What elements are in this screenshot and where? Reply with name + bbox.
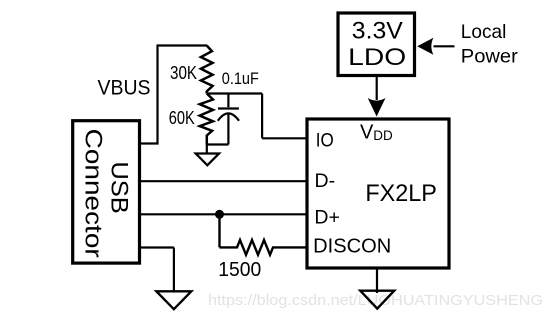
svg-text:D+: D+ (314, 206, 339, 228)
svg-text:1500: 1500 (218, 259, 261, 281)
svg-text:V: V (360, 122, 374, 144)
svg-text:FX2LP: FX2LP (365, 180, 437, 207)
svg-text:IO: IO (316, 130, 334, 151)
svg-text:VBUS: VBUS (98, 77, 151, 100)
svg-text:D-: D- (315, 170, 336, 192)
svg-text:DISCON: DISCON (313, 236, 391, 258)
svg-text:0.1uF: 0.1uF (222, 69, 259, 88)
svg-text:Power: Power (461, 47, 519, 68)
svg-text:3.3V: 3.3V (352, 18, 403, 45)
svg-text:USB: USB (106, 161, 133, 214)
svg-text:Local: Local (461, 22, 507, 43)
svg-text:LDO: LDO (348, 44, 406, 71)
svg-text:Connector: Connector (80, 129, 107, 258)
svg-text:DD: DD (373, 128, 393, 143)
svg-text:60K: 60K (169, 108, 195, 128)
svg-text:30K: 30K (170, 63, 197, 83)
